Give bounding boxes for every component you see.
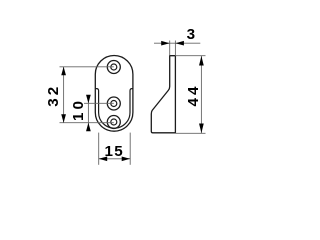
extension line 3 left (part left edge extended up) [169, 41, 171, 56]
arrow 44 bottom [199, 124, 204, 134]
extension line top hole [60, 66, 114, 68]
hole top outer circle [107, 61, 120, 74]
front view inner rail-socket contour [95, 89, 133, 129]
extension line 15 right [129, 133, 131, 165]
arrow 15 left [99, 156, 108, 161]
hole top inner circle [111, 64, 117, 70]
extension line 44 bottom (part bottom edge extended right) [175, 132, 205, 134]
arrow 44 top [199, 56, 204, 66]
extension line 44 top (part top edge extended right) [175, 55, 205, 57]
front view outer stadium outline [95, 56, 133, 132]
svg-text:3: 3 [187, 26, 197, 43]
extension line 15 left [98, 133, 100, 165]
extension line 3 right (part right edge extended up) [174, 41, 176, 56]
side view profile outline [151, 56, 175, 133]
arrow 10 bottom (outside, pointing up) [86, 123, 91, 132]
arrow 15 right [122, 156, 131, 161]
arrow 3 right (outside, pointing left) [175, 41, 184, 46]
svg-text:44: 44 [185, 84, 202, 107]
dimension line 44 [200, 56, 202, 134]
dimension line 3 [154, 42, 200, 44]
hole middle outer circle [107, 97, 120, 110]
arrow 32 top [61, 67, 66, 76]
dimension line 10 [87, 96, 89, 131]
svg-text:10: 10 [70, 98, 87, 121]
hole bottom outer circle [107, 116, 120, 129]
hole bottom inner circle [111, 119, 117, 125]
svg-text:32: 32 [45, 84, 62, 107]
arrow 10 top (outside, pointing down) [86, 95, 91, 104]
dimension line 32 [63, 67, 65, 123]
hole middle inner circle [111, 101, 117, 107]
arrow 3 left (outside, pointing right) [161, 41, 170, 46]
arrow 32 bottom [61, 114, 66, 123]
dimension line 15 [99, 158, 131, 160]
svg-text:15: 15 [105, 143, 124, 160]
extension line middle hole [84, 102, 114, 104]
extension line bottom hole [60, 122, 114, 124]
